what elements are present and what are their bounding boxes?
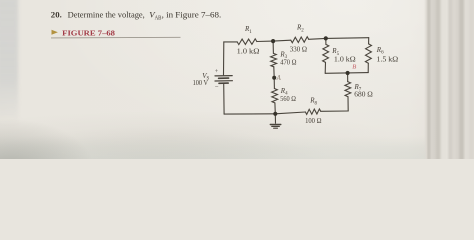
svg-text:R1: R1: [244, 25, 252, 35]
svg-text:, in Figure 7–68.: , in Figure 7–68.: [162, 10, 222, 20]
svg-text:470 Ω: 470 Ω: [280, 59, 296, 66]
svg-text:Determine the voltage,: Determine the voltage,: [68, 10, 145, 20]
svg-text:1.0 kΩ: 1.0 kΩ: [334, 56, 356, 64]
svg-text:A: A: [276, 75, 282, 82]
svg-text:R6: R6: [376, 46, 384, 56]
svg-text:100 V: 100 V: [193, 80, 208, 87]
svg-text:560 Ω: 560 Ω: [280, 96, 296, 103]
svg-text:FIGURE 7–68: FIGURE 7–68: [62, 28, 115, 37]
svg-text:+: +: [215, 68, 219, 75]
svg-text:AB: AB: [155, 14, 162, 21]
svg-text:R8: R8: [309, 97, 317, 107]
svg-text:R2: R2: [296, 24, 304, 34]
svg-text:100 Ω: 100 Ω: [305, 118, 321, 125]
svg-text:R4: R4: [280, 87, 288, 97]
svg-text:−: −: [215, 83, 219, 90]
svg-text:1.0 kΩ: 1.0 kΩ: [237, 48, 260, 56]
svg-text:680 Ω: 680 Ω: [354, 91, 373, 99]
svg-text:B: B: [352, 64, 356, 71]
svg-text:1.5 kΩ: 1.5 kΩ: [376, 56, 398, 64]
svg-text:330 Ω: 330 Ω: [290, 45, 307, 53]
svg-text:20.: 20.: [51, 10, 62, 20]
